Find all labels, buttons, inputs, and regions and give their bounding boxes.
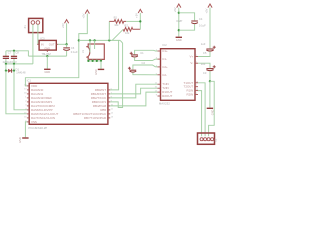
svg-text:0.1uF: 0.1uF: [71, 50, 78, 54]
+5V supply arrow for MAX232 power: [177, 4, 181, 8]
junction jack pin A: [89, 39, 91, 41]
ground symbol IC2P: [176, 37, 182, 38]
ground symbol near regulator: [44, 69, 50, 70]
+5V supply arrow above R1 R2: [138, 9, 142, 13]
PIC pin 11 RB5: [108, 109, 110, 111]
capacitor C5 1uF on V+: [209, 8, 211, 49]
PIC pin 18 RA1/AN1: [27, 93, 29, 95]
wire regulator GND down to ground symbol: [46, 56, 48, 69]
dc power jack J1: [86, 44, 104, 59]
junction node regulator output: [65, 43, 67, 45]
PIC pin 16 RA7/OSC1/CLKIN: [27, 117, 29, 119]
svg-text:C3: C3: [203, 71, 207, 75]
jack bottom pins: [87, 59, 89, 61]
+5V supply arrow right rail: [208, 4, 212, 8]
PIC pin 15 RA6/OSC2/CLKOUT: [27, 113, 29, 115]
svg-text:10k: 10k: [125, 31, 130, 35]
wire +5V to R1 and R2: [139, 13, 141, 29]
MAX232 pin 12 R1OUT: [158, 91, 161, 93]
svg-text:C6: C6: [71, 46, 75, 50]
resistor R2 10k: [123, 27, 140, 31]
MAX232 pin 5 C2-: [158, 74, 161, 76]
svg-text:MAX232: MAX232: [159, 102, 170, 106]
junction jack pin B: [93, 39, 95, 41]
svg-text:IC3: IC3: [40, 36, 45, 40]
junction C8 top: [13, 50, 15, 52]
rail B jog from W1: [120, 40, 122, 43]
wire PIC RB4 to MAX232 R1OUT: [110, 92, 157, 106]
terminal block X1: [29, 18, 43, 32]
wire MAX232 R1IN to connector pin 1: [198, 91, 202, 137]
svg-text:GND: GND: [176, 38, 182, 42]
svg-text:+5V: +5V: [82, 13, 86, 18]
wire X1 pin2 to regulator IN: [38, 24, 39, 44]
svg-text:C8: C8: [15, 51, 19, 55]
PIC pin 13 RB7/T1OSI/PGD: [108, 117, 110, 119]
svg-text:X1: X1: [23, 25, 27, 29]
svg-text:V+: V+: [190, 55, 194, 59]
+5V supply arrow near regulator: [65, 20, 69, 24]
top wire of filter caps: [6, 51, 29, 56]
connector X2 pin 4: [211, 138, 214, 141]
MAX232 pin 6 V-: [195, 62, 198, 64]
MAX232 pin 4 C2+: [158, 66, 161, 68]
MAX232 pin 10 T2IN: [158, 87, 161, 89]
svg-text:+5V: +5V: [204, 8, 208, 13]
svg-text:R2OUT: R2OUT: [162, 94, 172, 98]
svg-text:VSS: VSS: [31, 120, 37, 124]
svg-text:R2IN: R2IN: [186, 93, 193, 97]
svg-text:OUT: OUT: [49, 42, 55, 46]
ground symbol below jack: [98, 69, 104, 70]
MAX232 pin 13 R1IN: [195, 90, 198, 92]
svg-text:+5V: +5V: [173, 7, 177, 12]
junction IC2P GND: [178, 29, 180, 31]
capacitor C4 bypass loop: [179, 13, 195, 21]
svg-text:R1: R1: [114, 15, 118, 19]
svg-text:GND: GND: [95, 69, 98, 75]
power gate IC2P line: [178, 8, 180, 37]
MAX232 pin 9 R2OUT: [158, 95, 161, 97]
svg-text:PIC16F628-I/P: PIC16F628-I/P: [28, 126, 47, 130]
PIC pin 4 RA5/MCLR/VPP: [27, 109, 29, 111]
svg-text:GND: GND: [44, 46, 50, 50]
MAX232 pin 3 C1-: [158, 58, 161, 60]
svg-text:R2: R2: [124, 23, 128, 27]
junction R1 R2 tap: [108, 39, 110, 41]
microcontroller IC1 PIC16F628: [29, 83, 108, 124]
svg-text:+5V: +5V: [61, 23, 65, 28]
PIC pin 9 RB3/CCP1: [108, 101, 110, 103]
svg-text:C2+: C2+: [162, 65, 168, 69]
MAX232 pin 8 R2IN: [195, 94, 198, 96]
capacitor C3 1uF on V-: [198, 63, 210, 68]
svg-text:RB7/T1OSI/PGD: RB7/T1OSI/PGD: [84, 116, 106, 120]
voltage regulator IC3 78L05: [39, 40, 56, 50]
wire PIC RB1 to MAX232 T2IN: [110, 88, 157, 94]
rail B to PIC RB3 with jog: [110, 43, 122, 108]
svg-text:V-: V-: [190, 61, 193, 65]
VDD rail from arrow down-left-down to PIC VDD: [25, 14, 87, 86]
PIC pin 7 RB1/RX/DT: [108, 93, 110, 95]
svg-text:C1-: C1-: [162, 57, 167, 61]
wire regulator OUT to +5V node: [58, 43, 67, 45]
ground symbol right: [207, 108, 213, 109]
ground rail from top wire corner to C6: [28, 55, 66, 57]
svg-text:1uF: 1uF: [201, 42, 206, 46]
resistor R1 10k: [108, 21, 110, 40]
PIC pin 12 RB6/T1OSO/T1CKI/PGC: [108, 113, 110, 115]
PIC pin 3 RA4/T0CKI/CMP2: [27, 105, 29, 107]
junction C8 bottom: [13, 63, 15, 65]
svg-text:J1: J1: [81, 50, 85, 53]
MAX232 pin 1 C1+: [158, 50, 161, 52]
PIC pin 17 RA0/AN0: [27, 89, 29, 91]
svg-text:10k: 10k: [114, 23, 119, 27]
junction regulator GND on rail: [46, 55, 48, 57]
wire X1 pin1 to ground rail: [32, 24, 34, 64]
wire PIC VSS to ground: [25, 122, 27, 137]
PIC pin 2 RA3/AN3/CMP1: [27, 101, 29, 103]
svg-text:1N4148: 1N4148: [16, 71, 26, 75]
svg-text:C1+: C1+: [162, 49, 168, 53]
wire MAX232 T1OUT to connector pin 2: [198, 83, 205, 137]
wire R1 to +5V node: [126, 20, 140, 22]
wire node down to ground symbol: [209, 81, 211, 107]
+5V supply arrow feeding VDD rail: [85, 10, 89, 14]
capacitor C6 100nF: [66, 44, 68, 47]
wire PIC RB2 to MAX232 T1IN: [110, 84, 157, 98]
PIC pin 6 RB0/INT: [108, 89, 110, 91]
rs232 driver IC2 MAX232: [161, 49, 196, 101]
ground symbol below PIC: [22, 137, 28, 138]
capacitor C8 2200uF: [13, 51, 15, 56]
svg-text:GND: GND: [18, 137, 22, 143]
MAX232 pin 7 T2OUT: [195, 86, 198, 88]
svg-text:C4: C4: [199, 17, 203, 21]
jack ground wire: [88, 60, 101, 62]
svg-text:1uF: 1uF: [201, 62, 206, 66]
MAX232 pin 2 V+: [195, 56, 198, 58]
wire node right and down to connector pin 3: [209, 81, 215, 136]
PIC pin 14 VDD: [27, 85, 29, 87]
PIC pin 10 RB4/PGM: [108, 105, 110, 107]
rail from D1 right to PIC RA5 pin: [14, 71, 27, 110]
wire W1 jack pins to rail A: [79, 39, 120, 41]
svg-text:+5V: +5V: [135, 13, 139, 18]
connector X2: [198, 133, 215, 144]
diode D1: [5, 64, 7, 71]
svg-text:IC2: IC2: [162, 43, 167, 47]
jack top pin A: [89, 40, 91, 52]
svg-text:C7: C7: [8, 51, 12, 55]
junction right supply node: [209, 80, 211, 82]
svg-text:C2-: C2-: [162, 73, 167, 77]
svg-text:GND: GND: [44, 70, 50, 74]
PIC pin 8 RB2/TX/CK: [108, 97, 110, 99]
capacitor C7 2200uF: [5, 51, 7, 56]
MAX232 pin 11 T1IN: [158, 83, 161, 85]
junction C7 bottom: [5, 63, 7, 65]
rail from D1 left to PIC RA6 pin: [6, 71, 27, 114]
PIC pin 5 VSS: [27, 121, 29, 123]
capacitor C2 1uF charge pump: [133, 65, 158, 70]
svg-text:78L05Z: 78L05Z: [42, 52, 52, 56]
junction VDD rail to jack wire: [78, 39, 80, 41]
capacitor C1 1uF charge pump: [135, 50, 158, 54]
junction IC2P VCC: [178, 12, 180, 14]
PIC pin 1 RA2/AN2/VREF: [27, 97, 29, 99]
wire R2 diagonal to junction: [112, 29, 123, 40]
svg-text:IC1: IC1: [27, 79, 32, 83]
bottom rail to X1 pin1: [6, 63, 33, 65]
connector X2 pin 3: [207, 138, 210, 141]
svg-text:C1: C1: [140, 51, 144, 55]
connector X2 pin 1: [200, 138, 203, 141]
svg-text:C2: C2: [142, 61, 146, 65]
connector X2 pin 2: [204, 138, 207, 141]
svg-text:IC2P: IC2P: [176, 19, 182, 23]
jack top pin B: [94, 40, 96, 49]
svg-text:X2: X2: [213, 138, 217, 142]
rail A from W1 to PIC RB0: [110, 40, 118, 90]
MAX232 pin 14 T1OUT: [195, 82, 198, 84]
svg-text:0.1uF: 0.1uF: [199, 23, 206, 27]
svg-text:IN: IN: [41, 42, 44, 46]
svg-text:C5: C5: [203, 51, 207, 55]
